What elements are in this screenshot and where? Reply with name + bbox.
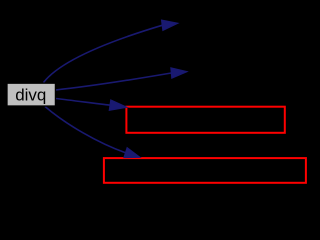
arrowhead: upper red rectangle: [109, 100, 127, 111]
edge: divq to top callee (wire): [44, 25, 163, 82]
node: red rectangle (truncated callee, upper): [126, 107, 284, 133]
node divq: [7, 83, 55, 106]
node: red rectangle (truncated callee, lower): [104, 158, 306, 183]
arrowhead: second callee: [171, 68, 187, 79]
edge: divq to lower red rectangle (wire): [45, 107, 126, 153]
edge: divq to second callee (wire): [56, 73, 172, 90]
svg-text:divq: divq: [15, 86, 46, 105]
edge: divq to upper red rectangle (wire): [56, 99, 111, 106]
arrowhead: lower red rectangle: [124, 148, 140, 158]
arrowhead: top callee: [161, 20, 178, 31]
